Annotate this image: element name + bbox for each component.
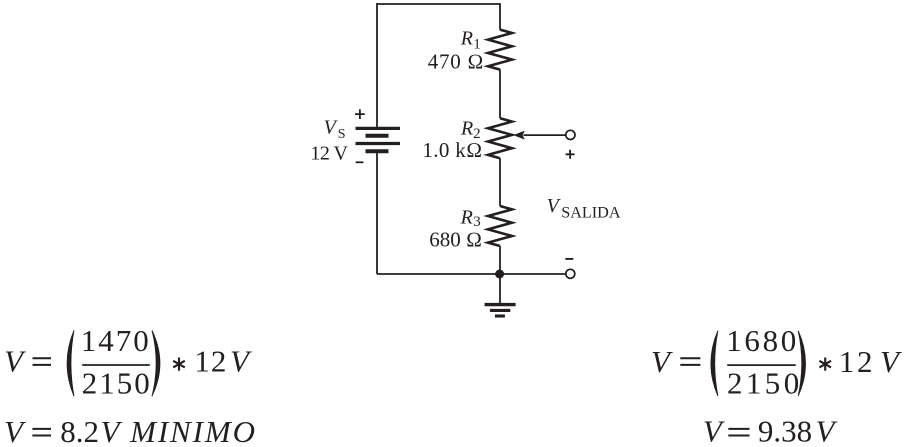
wire wiper lead bbox=[524, 134, 566, 136]
svg-text:SALIDA: SALIDA bbox=[561, 203, 621, 221]
svg-text:12: 12 bbox=[839, 344, 875, 379]
potentiometer wiper arrowhead bbox=[513, 131, 525, 140]
wire bottom rail bbox=[377, 273, 566, 275]
svg-text:470 Ω: 470 Ω bbox=[428, 50, 484, 74]
equation left line 2: V = 8.2 V MINIMO bbox=[4, 414, 257, 447]
label 470 ohm bbox=[428, 50, 484, 74]
svg-text:V: V bbox=[4, 414, 26, 447]
resistor R3 bbox=[488, 206, 512, 246]
svg-text:1680: 1680 bbox=[726, 323, 799, 358]
svg-text:V: V bbox=[101, 414, 123, 447]
svg-text:9.38: 9.38 bbox=[758, 414, 812, 447]
svg-text:12 V: 12 V bbox=[310, 142, 348, 164]
wire ground stem bbox=[499, 274, 501, 303]
output plus sign bbox=[566, 150, 575, 159]
wire middle rail top bbox=[499, 3, 501, 30]
ground bbox=[485, 305, 516, 316]
wire R1-R2 segment bbox=[499, 69, 501, 118]
label 12 V bbox=[310, 142, 348, 164]
equation right line 1: V = (1680/2150) * 12 V bbox=[651, 323, 902, 401]
svg-text:V: V bbox=[880, 344, 902, 379]
svg-text:R: R bbox=[460, 206, 473, 228]
svg-text:V: V bbox=[230, 344, 252, 379]
output terminal - (node) bbox=[566, 269, 575, 278]
svg-text:V: V bbox=[651, 344, 673, 379]
svg-text:R: R bbox=[460, 28, 473, 50]
output terminal + (node) bbox=[566, 130, 575, 139]
battery VS bbox=[356, 128, 401, 151]
output minus sign bbox=[565, 258, 573, 260]
svg-text:MINIMO: MINIMO bbox=[129, 414, 257, 447]
svg-text:1.0 kΩ: 1.0 kΩ bbox=[422, 138, 482, 162]
svg-text:V: V bbox=[703, 414, 725, 447]
battery minus sign bbox=[356, 161, 364, 163]
svg-text:680 Ω: 680 Ω bbox=[429, 228, 482, 252]
svg-text:1470: 1470 bbox=[81, 323, 151, 358]
label R3 bbox=[460, 206, 481, 230]
wire R3-junction segment bbox=[499, 246, 501, 274]
svg-text:S: S bbox=[338, 127, 346, 142]
svg-text:V: V bbox=[816, 414, 838, 447]
resistor R1 bbox=[488, 30, 512, 70]
wire top rail bbox=[377, 3, 500, 5]
label 680 ohm bbox=[429, 228, 482, 252]
junction node dot bbox=[495, 270, 504, 279]
wire R2-R3 segment bbox=[499, 158, 501, 206]
wire left rail upper bbox=[376, 3, 378, 127]
label VS bbox=[324, 117, 346, 142]
wire left rail lower bbox=[376, 153, 378, 275]
equation left line 1: V = (1470/2150) * 12 V bbox=[4, 323, 252, 401]
label R1 bbox=[460, 28, 481, 53]
svg-text:R: R bbox=[460, 118, 473, 140]
resistor R2 (potentiometer) bbox=[488, 118, 512, 158]
svg-text:12: 12 bbox=[194, 344, 227, 379]
label R2 bbox=[460, 118, 481, 142]
svg-text:2150: 2150 bbox=[727, 365, 803, 400]
svg-text:V: V bbox=[4, 344, 26, 379]
battery plus sign bbox=[355, 109, 365, 119]
label 1.0 kohm bbox=[422, 138, 482, 162]
svg-text:8.2: 8.2 bbox=[60, 414, 99, 447]
svg-text:2150: 2150 bbox=[82, 366, 152, 401]
label V SALIDA bbox=[547, 195, 621, 221]
equation right line 2: V = 9.38 V bbox=[703, 414, 838, 447]
